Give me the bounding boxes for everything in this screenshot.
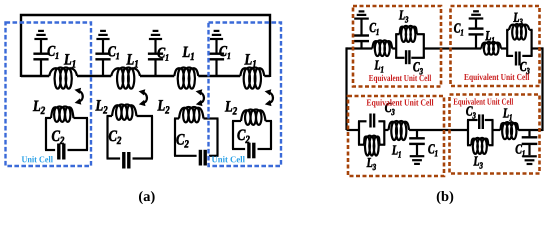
wire: right vertical (fig b)	[541, 47, 543, 131]
label L1 (top-right, fig b)	[485, 31, 494, 43]
ground (inverted) of capacitor C1 (cell 1, fig a)	[34, 31, 47, 39]
wire: left vertical (fig b)	[345, 47, 347, 130]
label L1 (cell 1, fig a)	[64, 54, 75, 67]
label Unit Cell (left)	[22, 156, 53, 162]
inductor L1 (top-right, fig b)	[481, 42, 501, 55]
inductor L2 (cell 2, fig a)	[112, 104, 137, 119]
label L1 (cell 4, fig a)	[244, 54, 255, 67]
label C1 (cell 2, fig a)	[108, 46, 119, 59]
wire: main line segment 3	[140, 75, 174, 77]
label C1 (top-left, fig b)	[370, 23, 379, 35]
caption (a)	[139, 191, 155, 204]
label C2 (cell 4, fig a)	[237, 130, 249, 143]
wire: main line segment 2	[77, 75, 111, 77]
label L1 (cell 2, fig a)	[126, 54, 137, 67]
label C1 (cell 3, fig a)	[158, 48, 169, 61]
tank loop L3/C3 (top-right, fig b)	[506, 30, 532, 56]
inductor L3 (bottom-left, fig b)	[364, 136, 380, 156]
capacitor C1 (cell 2, fig a)	[95, 39, 110, 76]
capacitor C2 (cell 4, fig a)	[249, 143, 254, 159]
inductor L3 (top-right, fig b)	[509, 24, 529, 40]
capacitor C1 (cell 3, fig a)	[148, 39, 163, 76]
label Unit Cell (right)	[212, 156, 245, 162]
inductor L1 (cell 3, fig a)	[174, 68, 198, 89]
label C1 (top-right, fig b)	[454, 23, 463, 35]
shunt resonator loop (cell 3, fig a)	[174, 119, 219, 156]
equivalent unit cell dashed box (bottom-right, fig b)	[450, 95, 540, 174]
label C2 (cell 3, fig a)	[176, 134, 188, 147]
wire: bottom line (fig b)	[347, 129, 360, 131]
caption (b)	[437, 191, 453, 204]
inductor L2 (cell 4, fig a)	[241, 109, 266, 124]
label C3 (top-right, fig b)	[520, 62, 529, 74]
equivalent unit cell dashed box (top-left, fig b)	[353, 6, 441, 87]
label Equivalent Unit Cell (top-left)	[369, 75, 431, 83]
label Equivalent Unit Cell (bottom-left)	[367, 99, 434, 107]
ground (inverted) of capacitor C1 (cell 2, fig a)	[96, 31, 109, 39]
equivalent unit cell dashed box (top-right, fig b)	[451, 6, 540, 86]
inductor L1 (bottom-right, fig b)	[500, 122, 518, 139]
ground of C1 bottom-right	[522, 156, 537, 164]
capacitor C1 (bottom-left cell, fig b)	[409, 129, 425, 155]
shunt resonator loop (cell 1, fig a)	[45, 118, 88, 150]
equivalent unit cell dashed box (bottom-left, fig b)	[348, 96, 444, 176]
tank loop C3/L3 (bottom-left cell, fig b)	[358, 121, 385, 144]
label L1 (top-left, fig b)	[374, 60, 383, 72]
inductor L1 (cell 4, fig a)	[240, 68, 264, 89]
mutual-coupling arrow (cell 2)	[139, 89, 147, 106]
capacitor C2 (cell 2, fig a)	[124, 152, 129, 169]
ground (inverted) of C1 top-right	[469, 11, 484, 18]
capacitor C1 (bottom-right cell, fig b)	[522, 129, 538, 155]
label C1 (bottom-right, fig b)	[516, 144, 525, 156]
ground of C1 bottom-left	[410, 156, 425, 164]
inductor L3 (top-left, fig b)	[400, 26, 417, 42]
ground (inverted) of capacitor C1 (cell 4, fig a)	[210, 31, 223, 39]
label C2 (cell 1, fig a)	[52, 131, 64, 144]
inductor L1 (cell 2, fig a)	[111, 68, 140, 89]
mutual-coupling arrow (cell 4)	[265, 89, 273, 106]
inductor L1 (bottom-left, fig b)	[389, 121, 410, 140]
label L2 (cell 1, fig a)	[33, 101, 45, 114]
label L2 (cell 4, fig a)	[225, 101, 237, 114]
label L2 (cell 3, fig a)	[157, 100, 169, 113]
wire: outer return rail (top + sides)	[21, 15, 270, 77]
unit cell dashed box (left, fig a)	[6, 23, 92, 167]
label C1 (bottom-left, fig b)	[428, 144, 437, 156]
unit cell dashed box (right, fig a)	[209, 23, 282, 167]
label L1 (cell 3, fig a)	[182, 47, 193, 60]
label C1 (cell 1, fig a)	[48, 46, 59, 59]
label C1 (cell 4, fig a)	[219, 46, 230, 59]
mutual-coupling arrow (cell 1)	[74, 88, 82, 105]
label C3 (bottom-right, fig b)	[466, 106, 475, 118]
tank loop L3/C3 (top-left, fig b)	[395, 34, 425, 58]
wire: top line (fig b)	[347, 47, 373, 49]
ground (inverted) of C1 top-left	[354, 11, 369, 18]
capacitor C1 (top-right cell, fig b)	[469, 19, 484, 49]
label L3 (bottom-left, fig b)	[367, 158, 376, 170]
label Equivalent Unit Cell (top-right)	[464, 74, 529, 82]
inductor L1 (top-left, fig b)	[372, 40, 392, 56]
wire: main line segment 4	[198, 75, 240, 77]
capacitor C1 (cell 4, fig a)	[209, 39, 224, 76]
label Equivalent Unit Cell (bottom-right)	[453, 98, 513, 106]
label L2 (cell 2, fig a)	[95, 100, 107, 113]
capacitor C3 (bottom-right, fig b)	[479, 114, 483, 129]
capacitor C1 (top-left cell, fig b)	[354, 20, 369, 50]
inductor L2 (cell 1, fig a)	[51, 106, 74, 121]
ground (inverted) of capacitor C1 (cell 3, fig a)	[149, 31, 162, 39]
capacitor C3 (top-right, fig b)	[516, 52, 520, 66]
shunt resonator loop (cell 2, fig a)	[107, 116, 154, 159]
tank loop C3/L3 (bottom-right cell, fig b)	[467, 120, 494, 145]
capacitor C2 (cell 3, fig a)	[200, 150, 205, 166]
capacitor C1 (cell 1, fig a)	[33, 39, 48, 76]
label L1 (bottom-left, fig b)	[392, 145, 401, 157]
capacitor C3 (bottom-left, fig b)	[371, 114, 375, 128]
label C3 (bottom-left, fig b)	[385, 103, 394, 115]
capacitor C3 (top-left, fig b)	[406, 50, 409, 64]
inductor L1 (cell 1, fig a)	[49, 68, 77, 89]
label L1 (bottom-right, fig b)	[503, 108, 512, 120]
mutual-coupling arrow (cell 3)	[196, 89, 204, 106]
label C2 (cell 2, fig a)	[109, 131, 121, 144]
inductor L2 (cell 3, fig a)	[179, 107, 204, 122]
wire: main line segment 5	[264, 75, 270, 77]
label L3 (top-right, fig b)	[513, 13, 522, 25]
label L3 (bottom-right, fig b)	[473, 156, 482, 168]
wire: main line segment 1	[21, 75, 49, 77]
inductor L3 (bottom-right, fig b)	[471, 138, 488, 154]
capacitor C2 (cell 1, fig a)	[59, 144, 64, 160]
shunt resonator loop (cell 4, fig a)	[232, 121, 272, 149]
label L3 (top-left, fig b)	[399, 10, 408, 22]
label C3 (top-left, fig b)	[413, 62, 422, 74]
